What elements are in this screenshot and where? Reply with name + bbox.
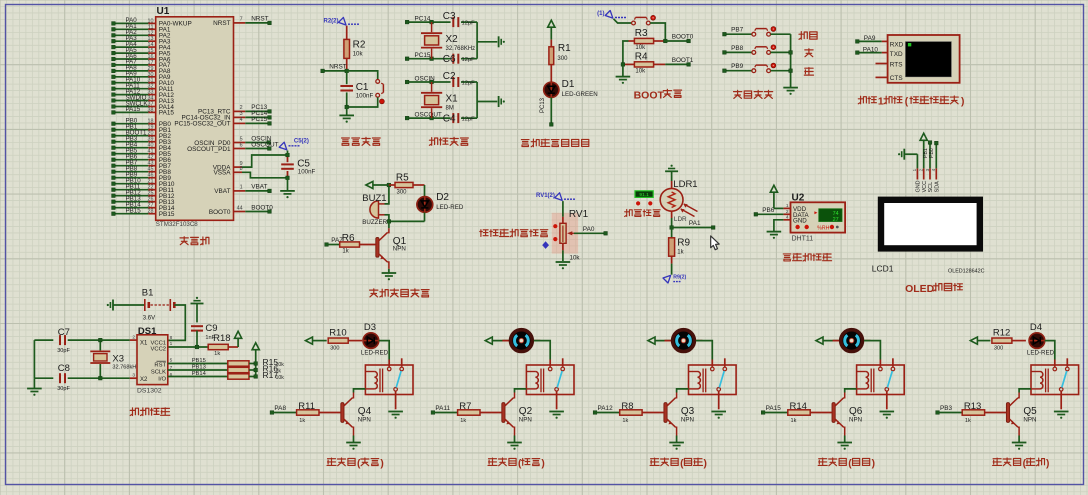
svg-text:PA15: PA15 bbox=[766, 405, 782, 412]
svg-text:1k: 1k bbox=[677, 250, 684, 256]
ground (RV1) bbox=[556, 262, 571, 269]
svg-text:X3: X3 bbox=[112, 353, 124, 364]
wire + node PB3 (pin 39) bbox=[112, 136, 172, 147]
svg-text:R18: R18 bbox=[213, 333, 230, 344]
wire + node PB9 (pin 46) bbox=[112, 172, 172, 183]
svg-text:OLED128642C: OLED128642C bbox=[948, 268, 985, 274]
svg-text:Q3: Q3 bbox=[681, 406, 695, 417]
wire + node SWDIO (pin 34) bbox=[112, 94, 175, 105]
ground (reset) bbox=[339, 107, 354, 123]
label 继电器(补光) bbox=[993, 458, 1050, 470]
svg-text:LED-RED: LED-RED bbox=[1027, 350, 1055, 357]
node NRST / wire bbox=[321, 63, 378, 79]
svg-text:28: 28 bbox=[148, 209, 154, 215]
svg-text:32.768KHz: 32.768KHz bbox=[446, 46, 476, 52]
wire coil to collector bbox=[354, 389, 366, 393]
ground (relay switch) bbox=[711, 395, 726, 419]
crystal X2 32.768KHz bbox=[421, 22, 475, 59]
blue handle diamond bbox=[542, 241, 549, 249]
node VBAT (pin 1) bbox=[214, 184, 271, 196]
svg-text:PB9: PB9 bbox=[731, 63, 744, 70]
svg-text:(: ( bbox=[680, 459, 684, 470]
potentiometer RV1 10k (selected highlight) bbox=[552, 213, 578, 254]
power arrow (R13) bbox=[970, 337, 990, 344]
wire + node PB15 (pin 28) bbox=[112, 208, 175, 219]
ground (keys) bbox=[783, 88, 798, 95]
svg-text:12pF: 12pF bbox=[462, 116, 476, 122]
label 加 bbox=[805, 49, 813, 57]
svg-text:1k: 1k bbox=[622, 418, 628, 424]
chip DS1 DS1302 bbox=[132, 326, 172, 395]
svg-text:): ) bbox=[541, 459, 544, 470]
wire PC14 row bbox=[405, 16, 450, 24]
label 继电器(制冷) bbox=[488, 458, 545, 470]
svg-text:BOOT0: BOOT0 bbox=[672, 34, 694, 41]
wire SCL (PB1) bbox=[923, 141, 932, 169]
label 有害气体值调节 bbox=[480, 229, 548, 237]
wire PC15 row bbox=[405, 52, 450, 60]
transistor Q3 NPN bbox=[664, 393, 695, 436]
node NRST (pin 7) bbox=[213, 16, 271, 28]
svg-text:R11: R11 bbox=[298, 401, 315, 412]
svg-text:PC14: PC14 bbox=[415, 16, 431, 23]
label 减 bbox=[804, 68, 813, 76]
ground (Q2 emitter) bbox=[507, 436, 522, 450]
wire PB6-DATA bbox=[754, 207, 783, 216]
capacitor C5 100nF bbox=[281, 153, 315, 179]
wire OSCOUT row bbox=[405, 112, 450, 120]
power arrow (R1 top) bbox=[548, 20, 555, 39]
svg-text:LDR: LDR bbox=[674, 216, 687, 223]
svg-text:1k: 1k bbox=[791, 418, 797, 424]
svg-text:12pF: 12pF bbox=[462, 20, 476, 26]
svg-text:R2: R2 bbox=[353, 39, 366, 50]
pin stubs U2 bbox=[783, 208, 790, 219]
svg-text:R12: R12 bbox=[993, 327, 1010, 338]
svg-text:10k: 10k bbox=[570, 254, 581, 261]
ground (Q6 emitter) bbox=[837, 436, 852, 450]
svg-text:300: 300 bbox=[397, 189, 408, 195]
svg-text:RTS: RTS bbox=[890, 62, 903, 69]
ground (Q1 emitter) bbox=[382, 269, 397, 280]
push button (BOOT) bbox=[614, 15, 666, 41]
svg-text:U2: U2 bbox=[792, 192, 805, 203]
wire X1 row bbox=[100, 339, 129, 341]
ground (BOOT) bbox=[616, 64, 631, 84]
svg-text:PB15: PB15 bbox=[192, 358, 206, 364]
svg-text:PC15: PC15 bbox=[415, 52, 431, 59]
svg-text:BOOT0: BOOT0 bbox=[209, 209, 231, 216]
ground (OLED GND, sideways) bbox=[898, 149, 917, 160]
svg-text:OSCOUT_PD1: OSCOUT_PD1 bbox=[187, 146, 231, 153]
svg-text:C7: C7 bbox=[58, 327, 70, 338]
wire + node PA0 (pin 10) bbox=[112, 17, 192, 28]
ground above C9 bbox=[191, 297, 204, 323]
svg-text:R6: R6 bbox=[342, 233, 355, 244]
ground (sideways) bbox=[499, 36, 505, 47]
wire + node PA3 (pin 13) bbox=[112, 35, 171, 46]
svg-text:OLED: OLED bbox=[905, 283, 935, 295]
svg-text:R2(2): R2(2) bbox=[323, 19, 338, 25]
svg-text:I/O: I/O bbox=[158, 377, 166, 383]
svg-text:PB15: PB15 bbox=[159, 211, 175, 218]
ground (relay switch) bbox=[1054, 395, 1069, 419]
svg-text:R9: R9 bbox=[677, 238, 690, 249]
svg-text:PB15: PB15 bbox=[126, 208, 142, 215]
capacitor C6 12pF bbox=[443, 54, 477, 65]
svg-text:PA8: PA8 bbox=[274, 405, 286, 412]
svg-text:D1: D1 bbox=[562, 79, 575, 90]
relay (coil + switch) bbox=[1031, 358, 1079, 395]
power arrow (OLED VCC) bbox=[920, 133, 927, 168]
ground (Q5 emitter) bbox=[1012, 436, 1027, 450]
crystal X1 8M bbox=[421, 82, 458, 118]
svg-text:300: 300 bbox=[994, 345, 1003, 351]
svg-text:LED-RED: LED-RED bbox=[436, 204, 464, 211]
push button PB9 bbox=[723, 63, 791, 73]
svg-text:D4: D4 bbox=[1030, 322, 1042, 333]
push button PB7 bbox=[723, 27, 791, 36]
wire + node PB5 (pin 41) bbox=[112, 148, 172, 159]
svg-text:VSSA: VSSA bbox=[213, 170, 231, 177]
pin VDDA (9) wire bbox=[213, 155, 288, 171]
svg-text:7: 7 bbox=[240, 17, 243, 23]
svg-text:): ) bbox=[1046, 459, 1049, 470]
svg-text:PA15: PA15 bbox=[126, 106, 141, 113]
svg-text:U1: U1 bbox=[157, 6, 170, 17]
resistor R9 1k bbox=[669, 228, 691, 275]
svg-text:LCD1: LCD1 bbox=[872, 264, 894, 274]
svg-text:VBAT: VBAT bbox=[251, 184, 267, 191]
label 继电器(加热) bbox=[327, 458, 384, 470]
resistor R5 300 bbox=[389, 172, 425, 195]
svg-text:100nF: 100nF bbox=[356, 92, 374, 99]
crystal X3 32.768kHz bbox=[90, 338, 136, 380]
wire VCC2 row bbox=[168, 345, 208, 349]
push button PB8 bbox=[723, 45, 791, 55]
svg-text:Q4: Q4 bbox=[358, 406, 372, 417]
capacitor C2 12pF bbox=[443, 71, 477, 87]
wire + node PA6 (pin 16) bbox=[112, 53, 171, 64]
wire + node PB13 (pin 26) bbox=[112, 196, 175, 207]
label 继电器(除湿) bbox=[650, 458, 707, 470]
label 复位电路 bbox=[342, 137, 381, 145]
wire X2 row bbox=[100, 377, 129, 379]
label 声光报警电路 bbox=[370, 289, 430, 297]
svg-text:R3: R3 bbox=[635, 28, 648, 39]
wire VDD bbox=[774, 207, 784, 209]
svg-text:1k: 1k bbox=[299, 418, 305, 424]
resistor R2 10k bbox=[344, 26, 366, 71]
svg-text:30pF: 30pF bbox=[57, 348, 70, 354]
wire + node PB7 (pin 43) bbox=[112, 160, 172, 171]
svg-text:SCLK: SCLK bbox=[151, 369, 166, 375]
diode D4 LED-RED bbox=[1027, 322, 1055, 356]
svg-text:SCL: SCL bbox=[928, 182, 934, 193]
svg-text:4: 4 bbox=[240, 117, 243, 123]
svg-text:1k: 1k bbox=[214, 351, 220, 357]
resistor R4 10k bbox=[623, 52, 665, 75]
svg-text:D2: D2 bbox=[436, 192, 449, 203]
svg-text:GND: GND bbox=[793, 218, 807, 225]
svg-text:300: 300 bbox=[557, 56, 568, 62]
motor/fan bbox=[502, 330, 540, 352]
node OSCIN (pin 5) bbox=[194, 135, 272, 147]
svg-text:C3: C3 bbox=[443, 11, 456, 22]
svg-text:X1: X1 bbox=[446, 94, 459, 105]
wire + node PB10 (pin 21) bbox=[112, 178, 175, 189]
power arrow (U2) bbox=[770, 185, 777, 208]
RV1 wiper arrow / wire PA0 bbox=[567, 226, 607, 236]
svg-text:(1): (1) bbox=[597, 11, 604, 17]
svg-text:NRST: NRST bbox=[329, 63, 346, 70]
transistor Q4 NPN bbox=[341, 393, 372, 436]
serial terminal window (virtual terminal) bbox=[888, 35, 960, 83]
wire + node PA5 (pin 15) bbox=[112, 47, 171, 58]
probe C5(2) bbox=[279, 139, 309, 156]
svg-text:PA9: PA9 bbox=[864, 35, 876, 42]
wire + node SWCLK (pin 37) bbox=[112, 100, 175, 111]
svg-text:NPN: NPN bbox=[681, 417, 694, 424]
svg-text:NPN: NPN bbox=[519, 417, 532, 424]
svg-text:BUZ1: BUZ1 bbox=[362, 193, 386, 204]
wire LED to relay bbox=[379, 341, 390, 360]
transistor Q5 NPN bbox=[1006, 393, 1037, 436]
wire motor to relay bbox=[534, 341, 550, 360]
svg-text:PB14: PB14 bbox=[192, 371, 207, 377]
RV1 adjust dots bbox=[553, 224, 557, 241]
svg-text:1k: 1k bbox=[342, 248, 349, 254]
wire coil to collector bbox=[677, 389, 689, 393]
pin VSSA (8) wire bbox=[213, 166, 287, 178]
resistor R3 10k bbox=[629, 28, 666, 51]
pin RTS stub bbox=[876, 63, 888, 65]
wire + node PA8 (pin 29) bbox=[112, 65, 171, 76]
wire LED to relay bbox=[1045, 341, 1055, 360]
svg-text:PC15: PC15 bbox=[251, 116, 267, 123]
svg-text:R7: R7 bbox=[459, 401, 471, 412]
svg-text:PA11: PA11 bbox=[435, 405, 450, 412]
svg-text:BOOT: BOOT bbox=[634, 89, 665, 101]
svg-text:PB13: PB13 bbox=[192, 365, 206, 371]
power arrow (R11) bbox=[306, 337, 327, 344]
label 温湿度模块 bbox=[783, 253, 831, 261]
svg-text:BOOT1: BOOT1 bbox=[672, 57, 694, 64]
label 主芯片 bbox=[180, 237, 209, 245]
svg-text:4: 4 bbox=[931, 168, 936, 171]
wire + node PB6 (pin 42) bbox=[112, 154, 172, 165]
svg-text:2: 2 bbox=[919, 168, 924, 171]
wire coil to collector bbox=[515, 389, 527, 393]
svg-text:(: ( bbox=[1023, 459, 1027, 470]
svg-text:8: 8 bbox=[240, 166, 243, 172]
wire + node PA9 (pin 30) bbox=[112, 71, 171, 82]
wire + node PA7 (pin 17) bbox=[112, 59, 171, 69]
svg-text:X1: X1 bbox=[140, 341, 148, 347]
node BOOT1 bbox=[621, 57, 694, 66]
svg-text:C4: C4 bbox=[443, 113, 456, 124]
probe R2(2) bbox=[323, 17, 359, 25]
svg-text:BOOT0: BOOT0 bbox=[251, 204, 273, 211]
probe (1) bbox=[597, 11, 626, 19]
svg-text:RST: RST bbox=[154, 362, 166, 368]
svg-text:32.768kH: 32.768kH bbox=[112, 365, 136, 371]
power arrow (fan Q2) bbox=[485, 337, 509, 344]
label 串口1窗口（模拟手机端） bbox=[858, 96, 964, 108]
probe R9(2) bbox=[663, 275, 687, 284]
wire battery to VCC1 bbox=[168, 305, 186, 340]
power arrow (buzzer) bbox=[366, 181, 389, 188]
svg-text:): ) bbox=[704, 459, 707, 470]
svg-text:3: 3 bbox=[925, 168, 930, 171]
ground (relay switch) bbox=[549, 395, 564, 419]
label 时钟模块 bbox=[130, 408, 170, 416]
resistor R8 1k + wire PA12 bbox=[593, 401, 664, 424]
wire SDA (PB0) bbox=[929, 141, 938, 168]
power arrow (fan Q3) bbox=[648, 337, 671, 344]
ground (Q4 emitter) bbox=[346, 436, 361, 450]
resistor R14 1k + wire PA15 bbox=[761, 401, 832, 424]
resistor R16 1k + wire PB13 bbox=[168, 364, 282, 375]
svg-text:RXD: RXD bbox=[890, 41, 904, 48]
capacitor C4 12pF bbox=[443, 113, 477, 124]
wire motor to relay bbox=[696, 341, 712, 360]
svg-text:NPN: NPN bbox=[849, 417, 862, 424]
svg-text:PA1: PA1 bbox=[689, 220, 701, 227]
motor/fan bbox=[833, 330, 871, 352]
svg-text:PC15-OSC32_OUT: PC15-OSC32_OUT bbox=[174, 121, 230, 128]
push button (reset, vertical) bbox=[376, 80, 384, 104]
svg-text:OSCIN: OSCIN bbox=[415, 75, 436, 82]
svg-text:Q6: Q6 bbox=[849, 406, 863, 417]
svg-text:10k: 10k bbox=[635, 68, 646, 74]
wire buzzer pins bbox=[385, 183, 391, 221]
svg-text:LDR1: LDR1 bbox=[673, 179, 697, 190]
svg-text:VCC2: VCC2 bbox=[151, 347, 166, 353]
svg-text:27: 27 bbox=[833, 217, 839, 223]
svg-text:R5: R5 bbox=[396, 172, 409, 183]
svg-text:): ) bbox=[380, 459, 383, 470]
svg-text:1: 1 bbox=[240, 185, 243, 191]
ground (sideways) bbox=[499, 96, 505, 107]
node OSCOUT (pin 6) bbox=[187, 141, 278, 153]
svg-text:STM32F103C8: STM32F103C8 bbox=[156, 221, 199, 228]
motor/fan bbox=[665, 330, 703, 352]
probe RV1(2) bbox=[536, 193, 575, 201]
svg-text:(: ( bbox=[357, 459, 361, 470]
mouse cursor bbox=[711, 236, 719, 250]
resistor R7 1k + wire PA11 bbox=[431, 401, 502, 424]
wire GND + ground bbox=[767, 220, 784, 239]
svg-text:DS1302: DS1302 bbox=[137, 388, 162, 395]
wire + node PB14 (pin 27) bbox=[112, 202, 175, 213]
svg-text:X2: X2 bbox=[446, 34, 459, 45]
resistor R11 1k + wire PA8 bbox=[270, 401, 341, 424]
svg-text:(: ( bbox=[848, 459, 852, 470]
svg-text:C2: C2 bbox=[443, 71, 456, 82]
resistor R17 10k + wire PB14 bbox=[168, 370, 284, 381]
svg-text:NPN: NPN bbox=[358, 417, 371, 424]
svg-text:VCC: VCC bbox=[922, 181, 928, 192]
wire + node PA2 (pin 12) bbox=[112, 29, 171, 40]
svg-text:38: 38 bbox=[148, 107, 154, 113]
svg-text:NPN: NPN bbox=[393, 246, 406, 253]
relay (coil + switch) bbox=[526, 358, 574, 395]
svg-text:Q5: Q5 bbox=[1023, 406, 1037, 417]
relay (coil + switch) bbox=[689, 358, 737, 395]
capacitor C9 1nF bbox=[191, 323, 218, 347]
svg-text:R10: R10 bbox=[329, 327, 346, 338]
svg-text:SDA: SDA bbox=[935, 181, 941, 192]
svg-text:GND: GND bbox=[916, 180, 922, 192]
wire + node PB8 (pin 45) bbox=[112, 166, 172, 177]
svg-text:(: ( bbox=[905, 97, 909, 108]
svg-text:RV1: RV1 bbox=[569, 209, 589, 220]
svg-text:PB7: PB7 bbox=[731, 27, 744, 34]
svg-text:1: 1 bbox=[170, 341, 173, 347]
svg-text:R8: R8 bbox=[621, 401, 633, 412]
svg-text:3.6V: 3.6V bbox=[143, 315, 155, 321]
node BOOT0 (pin 44) bbox=[209, 204, 273, 216]
svg-text:): ) bbox=[872, 459, 875, 470]
ground above LDR1 bbox=[665, 165, 678, 181]
wire D1 to PC13 bbox=[540, 97, 553, 126]
wire right bus bbox=[477, 82, 497, 118]
svg-text:NRST: NRST bbox=[213, 20, 230, 27]
resistor R12 300 bbox=[992, 327, 1026, 351]
svg-text:100nF: 100nF bbox=[298, 168, 316, 175]
svg-text:DHT11: DHT11 bbox=[792, 235, 814, 242]
svg-text:6: 6 bbox=[240, 142, 243, 148]
svg-text:PB1: PB1 bbox=[923, 148, 929, 158]
display LCD1 OLED128642C bbox=[872, 200, 985, 274]
svg-text:PC13: PC13 bbox=[540, 97, 546, 113]
svg-text:TXD: TXD bbox=[890, 51, 903, 58]
wire GND pin bbox=[916, 154, 918, 168]
svg-text:PB8: PB8 bbox=[731, 45, 744, 52]
svg-text:8: 8 bbox=[170, 335, 173, 341]
wire + node PB0 (pin 18) bbox=[112, 118, 172, 129]
wire R15-17 right bus bbox=[254, 362, 258, 379]
svg-text:X2: X2 bbox=[140, 377, 148, 383]
light level display 91.1 bbox=[635, 191, 653, 198]
resistor R10 300 bbox=[328, 327, 362, 351]
svg-text:LED-GREEN: LED-GREEN bbox=[562, 91, 598, 98]
ground (Q3 emitter) bbox=[669, 436, 684, 450]
wire + node PA1 (pin 11) bbox=[112, 23, 171, 33]
wire + node BOOT1 (pin 20) bbox=[112, 130, 172, 141]
svg-text:B1: B1 bbox=[142, 287, 154, 298]
node PC15 (pin 4) bbox=[174, 116, 271, 128]
svg-text:BUZZER: BUZZER bbox=[362, 219, 387, 226]
ground (relay switch) bbox=[388, 395, 403, 419]
wire R3-R4 left bus bbox=[623, 41, 629, 64]
resistor R13 1k + wire PB3 bbox=[936, 401, 1007, 424]
power arrow (clock pullups) bbox=[252, 343, 259, 364]
svg-text:R4: R4 bbox=[635, 52, 648, 63]
svg-text:30pF: 30pF bbox=[57, 386, 70, 392]
op-amp U1 STM32F103C8 main chip body bbox=[156, 6, 234, 228]
transistor Q2 NPN bbox=[502, 393, 533, 436]
svg-text:8M: 8M bbox=[446, 106, 454, 112]
sensor U2 DHT11 bbox=[786, 192, 845, 242]
svg-text:10k: 10k bbox=[635, 45, 646, 51]
ground (battery left) bbox=[107, 300, 145, 311]
label 设置 bbox=[799, 32, 817, 40]
svg-text:PA0: PA0 bbox=[583, 226, 595, 233]
wire PA10-TXD bbox=[856, 46, 888, 54]
svg-text:R13: R13 bbox=[964, 401, 981, 412]
